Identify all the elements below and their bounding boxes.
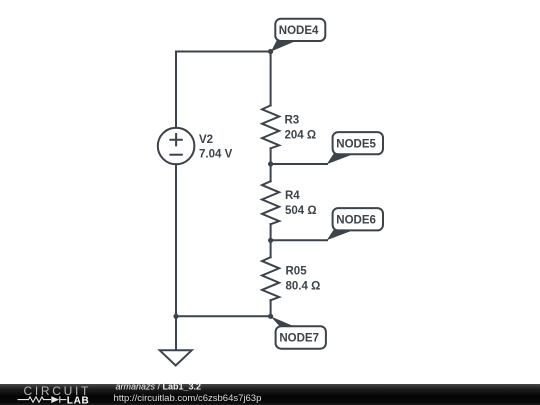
svg-text:204 Ω: 204 Ω <box>285 130 317 142</box>
svg-text:http://circuitlab.com/c6zsb64s: http://circuitlab.com/c6zsb64s7j63p <box>114 393 262 404</box>
svg-text:R3: R3 <box>285 115 300 127</box>
resistor R3 zigzag <box>262 105 279 148</box>
wire right vertical with resistor zigzags <box>270 52 272 106</box>
resistor R05 zigzag <box>262 257 279 300</box>
node flag NODE4 <box>271 19 325 52</box>
footer credit text <box>114 382 262 405</box>
resistor R4 zigzag <box>262 181 279 224</box>
svg-text:NODE6: NODE6 <box>336 214 376 226</box>
voltage source V2 circle <box>158 128 195 165</box>
V2 minus sign <box>170 154 181 156</box>
node flag NODE6 <box>327 208 383 240</box>
CircuitLab logo wordmark <box>18 384 92 405</box>
svg-text:NODE5: NODE5 <box>336 138 376 150</box>
junction dot ground <box>173 314 178 319</box>
junction dot NODE6 <box>268 238 273 243</box>
wire R3 to NODE5 junction <box>270 148 272 181</box>
svg-text:80.4 Ω: 80.4 Ω <box>286 281 321 293</box>
wire NODE5 stub <box>271 163 327 165</box>
svg-text:LAB: LAB <box>67 396 90 405</box>
wire left vertical bottom (V2 bottom to ground junction) <box>175 164 177 350</box>
svg-text:R05: R05 <box>286 266 308 278</box>
wire left vertical top (to V2 source top) <box>175 52 177 128</box>
junction dot NODE7 <box>268 314 273 319</box>
junction dot NODE5 <box>268 161 273 166</box>
svg-text:NODE4: NODE4 <box>279 25 319 37</box>
svg-text:504 Ω: 504 Ω <box>285 205 317 217</box>
junction dot NODE4 <box>268 49 273 54</box>
wire NODE6 stub <box>271 239 327 241</box>
svg-text:V2: V2 <box>199 134 213 146</box>
wire top horizontal from V2 to NODE4 junction <box>176 51 271 53</box>
wire R05 to bottom junction <box>270 300 272 316</box>
svg-text:NODE7: NODE7 <box>279 333 319 345</box>
node flag NODE7 <box>271 316 326 348</box>
wire bottom horizontal <box>176 315 271 317</box>
wire R4 to NODE6 junction <box>270 224 272 257</box>
svg-text:R4: R4 <box>285 190 300 202</box>
svg-text:7.04 V: 7.04 V <box>199 149 233 161</box>
V2 plus sign <box>170 134 181 145</box>
svg-text:armanazs / Lab1_3.2: armanazs / Lab1_3.2 <box>116 382 202 392</box>
ground symbol triangle <box>160 350 192 365</box>
node flag NODE5 <box>327 132 383 164</box>
